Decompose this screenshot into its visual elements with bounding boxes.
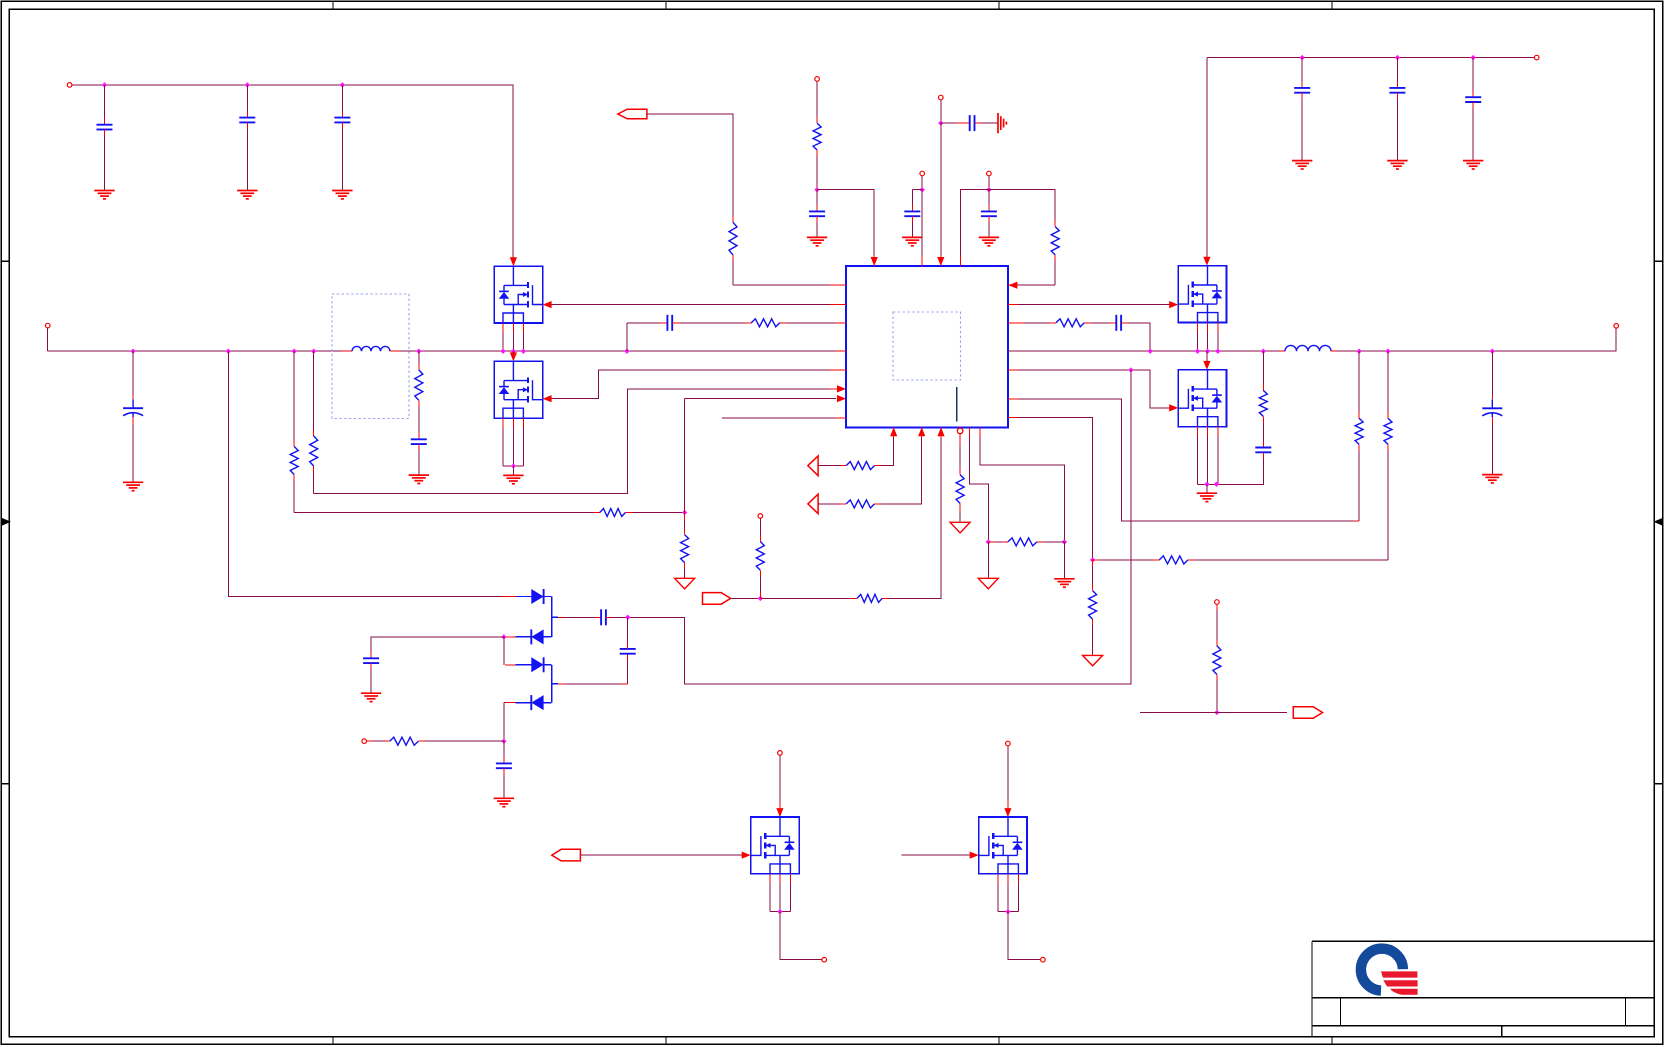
- wire: [998, 911, 1018, 913]
- ground: [503, 474, 523, 476]
- gate arrow: [742, 852, 751, 859]
- ground: [332, 190, 352, 192]
- ground (triangle): [950, 522, 970, 533]
- wire: [818, 503, 840, 505]
- transistor Q1: [494, 266, 542, 323]
- ground: [409, 474, 429, 476]
- terminal pin: [778, 751, 783, 756]
- wire: [759, 592, 761, 598]
- ground: [494, 797, 514, 799]
- wire Q3 source pins: [1217, 323, 1219, 332]
- junction: [1471, 55, 1476, 60]
- wire: [1216, 674, 1218, 680]
- junction: [1205, 349, 1210, 354]
- gate arrow: [1169, 404, 1178, 411]
- wire VIN top rail: [72, 85, 513, 258]
- junction: [1395, 55, 1400, 60]
- capacitor C9: [969, 115, 971, 131]
- junction: [245, 82, 250, 87]
- terminal pin: [1041, 957, 1046, 962]
- junction: [1090, 557, 1095, 562]
- wire: [1188, 559, 1194, 561]
- U1 inner outline: [893, 312, 961, 380]
- wire Q5 source pins: [789, 874, 791, 883]
- junction: [416, 349, 421, 354]
- wire: [830, 388, 837, 390]
- capacitor C10: [981, 210, 997, 212]
- wire: [684, 399, 686, 513]
- junction: [1195, 349, 1200, 354]
- wire: [132, 417, 134, 424]
- resistor R19: [756, 542, 764, 571]
- wire: [1396, 93, 1398, 99]
- ground (triangle): [978, 578, 998, 589]
- junction: [1204, 482, 1209, 487]
- resistor R2: [310, 436, 318, 466]
- wire: [512, 466, 514, 475]
- diode D1: [531, 589, 543, 604]
- wire: [830, 369, 846, 371]
- junction: [1128, 367, 1133, 372]
- junction: [501, 739, 506, 744]
- wire: [503, 768, 505, 774]
- capacitor C11: [1115, 315, 1117, 331]
- resistor R1: [290, 447, 298, 475]
- wire left rail cont: [400, 350, 846, 352]
- U1 right pin stubs: [1008, 284, 1018, 286]
- wire: [969, 437, 988, 542]
- ground: [123, 481, 143, 483]
- junction: [758, 596, 763, 601]
- wire: [1093, 559, 1099, 561]
- wire: [1084, 322, 1090, 324]
- junction: [814, 187, 819, 192]
- wire: [594, 512, 600, 514]
- capacitor C14: [1294, 87, 1310, 89]
- wire: [1301, 93, 1303, 99]
- terminal pin: [67, 83, 72, 88]
- wire: [104, 130, 106, 136]
- ground: [94, 190, 114, 192]
- wire Q1 gate to IC: [552, 304, 830, 306]
- capacitor C8: [904, 210, 920, 212]
- wire: [503, 465, 523, 467]
- diode D4: [531, 695, 543, 710]
- wire Q6 source pins: [1017, 874, 1019, 883]
- wire: [759, 535, 761, 542]
- wire: [1198, 483, 1218, 485]
- capacitor C16: [1465, 96, 1481, 98]
- resistor R9: [1056, 319, 1084, 327]
- capacitor C19: [363, 657, 379, 659]
- wire: [1054, 255, 1056, 261]
- wire: [502, 596, 516, 598]
- resistor R10: [1259, 390, 1267, 416]
- wire Q1 source pins: [502, 323, 504, 332]
- wire flag to IC pin: [647, 114, 733, 216]
- capacitor C2: [239, 117, 255, 119]
- wire: [1037, 541, 1043, 543]
- wire VOUT top rail: [1207, 57, 1534, 59]
- wire: [341, 85, 343, 112]
- junction: [130, 349, 135, 354]
- pin arrow: [837, 395, 846, 402]
- wire R1 row: [294, 512, 593, 514]
- wire: [875, 503, 881, 505]
- resistor R5: [729, 222, 737, 255]
- wire: [921, 190, 923, 256]
- border center arrow right: [1653, 518, 1662, 526]
- resistor R20: [857, 594, 882, 602]
- drain arrow: [776, 808, 783, 817]
- wire: [816, 82, 818, 118]
- junction: [1261, 349, 1266, 354]
- inductor L2: [1285, 345, 1331, 351]
- wire: [132, 351, 134, 395]
- wire: [1262, 351, 1264, 384]
- wire: [342, 350, 352, 352]
- wire: [1092, 560, 1094, 566]
- op-amp U1 (controller IC): [846, 266, 1008, 427]
- wire FB net: [628, 370, 1131, 684]
- junction: [511, 463, 516, 468]
- wire: [1396, 58, 1398, 82]
- inductor L1: [352, 346, 390, 351]
- off-page flag: [1293, 707, 1322, 719]
- wire to diode D1: [228, 351, 501, 596]
- pin arrow: [1008, 282, 1017, 289]
- ground: [361, 692, 381, 694]
- wire (stub net): [722, 417, 836, 419]
- U1 bottom pin stubs: [893, 427, 895, 437]
- gate arrow: [543, 395, 552, 402]
- diode D3: [531, 657, 543, 672]
- input flag (triangle): [808, 456, 818, 476]
- border center arrow left: [2, 518, 11, 526]
- capacitor C17: [600, 609, 602, 625]
- wire Q4 source pins: [1217, 427, 1219, 436]
- wire: [1018, 322, 1024, 324]
- wire: [390, 350, 400, 352]
- U1 left pin stubs: [836, 284, 846, 286]
- wire: [988, 541, 995, 543]
- capacitor C3: [334, 117, 350, 119]
- diode D2: [531, 629, 543, 644]
- wire to Q4 gate: [1018, 370, 1170, 408]
- pin arrow: [918, 427, 925, 436]
- wire R2 row to IC: [314, 389, 830, 494]
- wire: [626, 323, 628, 351]
- wire: [882, 597, 888, 599]
- wire: [760, 597, 851, 599]
- wire: [1331, 350, 1337, 352]
- border zone ticks: [332, 1, 334, 9]
- wire: [1121, 322, 1127, 324]
- wire: [367, 740, 373, 742]
- junction: [1005, 909, 1010, 914]
- junction: [340, 82, 345, 87]
- junction: [102, 82, 107, 87]
- wire: [959, 434, 961, 445]
- wire: [1262, 416, 1264, 422]
- wire: [503, 637, 505, 665]
- junction: [311, 349, 316, 354]
- wire: [672, 322, 679, 324]
- wire: [544, 702, 552, 704]
- terminal pin: [758, 514, 763, 519]
- wire: [1206, 484, 1208, 493]
- resistor R7: [1051, 227, 1059, 255]
- wire: [341, 122, 343, 128]
- wire: [816, 150, 818, 156]
- ground: [237, 190, 257, 192]
- resistor R18: [1008, 538, 1037, 546]
- wire: [313, 466, 315, 473]
- wire: [1206, 351, 1208, 361]
- wire: [1216, 605, 1218, 610]
- terminal pin: [45, 323, 50, 328]
- junction: [500, 349, 505, 354]
- ground: [1292, 160, 1312, 162]
- junction: [625, 615, 630, 620]
- transistor Q3: [1178, 266, 1226, 323]
- resistor R17: [956, 475, 964, 504]
- ground: [807, 236, 827, 238]
- wire: [912, 189, 922, 191]
- wire: [544, 636, 552, 638]
- wire: [627, 643, 629, 649]
- wire to IC top 2: [940, 123, 942, 257]
- transistor Q6: [979, 817, 1027, 874]
- resistor R14: [1089, 591, 1097, 620]
- transistor Q5: [751, 817, 799, 874]
- wire: [987, 542, 989, 577]
- wire: [960, 190, 989, 256]
- wire Q3 gate: [1018, 304, 1170, 306]
- pin arrow: [937, 427, 944, 436]
- wire: [512, 351, 514, 353]
- U1 pin1 mark: [956, 387, 958, 422]
- transformer outline box: [332, 294, 409, 419]
- wire: [940, 100, 942, 123]
- transistor Q4: [1178, 370, 1226, 427]
- gate arrow: [970, 852, 979, 859]
- wire right rail cont: [1337, 328, 1616, 351]
- resistor R8: [751, 319, 780, 327]
- junction: [521, 349, 526, 354]
- wire Q2 gate to IC: [552, 370, 830, 399]
- junction: [920, 187, 925, 192]
- off-page flag: [552, 849, 581, 861]
- drain arrow: [1203, 257, 1210, 266]
- wire cs net: [1018, 417, 1093, 560]
- wire: [816, 190, 818, 205]
- wire: [552, 683, 558, 685]
- pin arrow: [937, 257, 944, 266]
- ground: [979, 236, 999, 238]
- gate arrow: [1169, 301, 1178, 308]
- terminal pin: [822, 957, 827, 962]
- wire: [830, 304, 846, 306]
- junction: [1214, 482, 1219, 487]
- wire: [732, 216, 734, 222]
- junction: [682, 510, 687, 515]
- drain arrow: [510, 257, 517, 266]
- resistor R16: [846, 500, 874, 508]
- terminal pin: [939, 95, 944, 100]
- pin arrow: [837, 385, 846, 392]
- no-connect pin: [957, 428, 963, 434]
- ground: [1054, 578, 1074, 580]
- capacitor C7: [809, 210, 825, 212]
- drain arrow: [1004, 808, 1011, 817]
- resistor R6: [813, 123, 821, 150]
- terminal pin: [1534, 55, 1539, 60]
- wire: [544, 664, 552, 666]
- resistor R13: [1159, 556, 1188, 564]
- wire: [779, 756, 781, 803]
- wire from top rail to Q3: [1206, 58, 1208, 258]
- capacitor C13 (polarized): [1482, 407, 1502, 409]
- wire: [921, 176, 923, 190]
- wire: [418, 351, 420, 364]
- wire: [685, 398, 694, 400]
- junction: [986, 187, 991, 192]
- resistor R22a: [681, 535, 689, 563]
- resistor R23: [1213, 646, 1221, 675]
- terminal pin: [920, 171, 925, 176]
- ground: [902, 236, 922, 238]
- off-page flag: [618, 109, 647, 119]
- ground (triangle): [675, 578, 695, 589]
- wire: [1353, 520, 1359, 522]
- wire: [293, 351, 295, 440]
- junction: [1385, 349, 1390, 354]
- wire: [1007, 746, 1009, 802]
- capacitor C4 (polarized): [123, 407, 143, 409]
- wire: [1054, 220, 1056, 227]
- resistor R21: [390, 737, 419, 745]
- terminal pin: [362, 739, 367, 744]
- resistor R15: [846, 462, 874, 470]
- ground: [1387, 160, 1407, 162]
- wire: [370, 652, 372, 658]
- wire: [246, 122, 248, 128]
- junction: [1490, 349, 1495, 354]
- wire: [1491, 351, 1493, 395]
- drain arrow: [510, 352, 517, 361]
- wire: [684, 563, 686, 569]
- input flag (triangle): [808, 494, 818, 513]
- wire: [516, 702, 532, 704]
- wire: [975, 122, 982, 124]
- wire: [988, 176, 990, 190]
- ground (triangle): [1083, 655, 1103, 666]
- resistor R12: [1384, 418, 1392, 444]
- wire: [731, 597, 761, 599]
- capacitor C5: [411, 438, 427, 440]
- wire: [911, 216, 913, 222]
- wire: [988, 216, 990, 222]
- wire: [580, 854, 742, 856]
- wire right rail: [1008, 350, 1279, 352]
- wire to IC top: [817, 190, 874, 258]
- wire: [941, 122, 957, 124]
- ground: [1197, 492, 1217, 494]
- capacitor C1: [97, 124, 113, 126]
- resistor R3: [415, 370, 423, 400]
- junction: [511, 349, 516, 354]
- wire: [780, 912, 822, 960]
- wire: [1358, 412, 1360, 418]
- pin arrow: [890, 427, 897, 436]
- junction: [624, 349, 629, 354]
- wire: [902, 854, 970, 856]
- wire: [1008, 912, 1040, 960]
- junction: [501, 634, 506, 639]
- wire comp net: [1018, 399, 1353, 521]
- wire: [770, 911, 790, 913]
- resistor R4: [600, 509, 626, 517]
- capacitor C15: [1389, 87, 1405, 89]
- capacitor C6: [666, 315, 668, 331]
- wire Q2 source pins: [502, 418, 504, 427]
- resistor R11: [1355, 418, 1363, 444]
- U1 top pin stubs: [873, 256, 875, 266]
- wire: [684, 513, 686, 522]
- drain arrow: [1203, 361, 1210, 370]
- wire: [627, 660, 629, 684]
- off-page flag: [703, 593, 731, 605]
- wire: [1279, 350, 1285, 352]
- wire: [988, 190, 990, 205]
- capacitor C20: [496, 762, 512, 764]
- wire: [293, 475, 295, 482]
- terminal pin: [815, 77, 820, 82]
- wire: [516, 636, 532, 638]
- wire: [1472, 102, 1474, 108]
- wire: [1301, 58, 1303, 82]
- junction: [938, 120, 943, 125]
- ground: [1463, 160, 1483, 162]
- gate arrow: [543, 301, 552, 308]
- wire: [606, 616, 612, 618]
- wire: [552, 616, 558, 618]
- wire: [959, 256, 961, 266]
- junction: [226, 349, 231, 354]
- wire AC input stub: [47, 328, 49, 351]
- company logo: [1361, 949, 1418, 995]
- wire: [1472, 58, 1474, 92]
- wire: [1387, 412, 1389, 418]
- ground (right): [997, 113, 999, 133]
- junction: [986, 539, 991, 544]
- junction: [1215, 349, 1220, 354]
- wire: [371, 637, 504, 652]
- title block frame: [1312, 940, 1654, 942]
- wire: [418, 740, 424, 742]
- junction: [1062, 539, 1067, 544]
- wire: [625, 512, 632, 514]
- wire: [1491, 417, 1493, 424]
- wire: [818, 465, 840, 467]
- junction: [1356, 349, 1361, 354]
- junction: [1300, 55, 1305, 60]
- wire: [732, 255, 734, 261]
- transistor Q2: [494, 361, 542, 418]
- wire: [370, 663, 372, 669]
- wire: [503, 741, 505, 757]
